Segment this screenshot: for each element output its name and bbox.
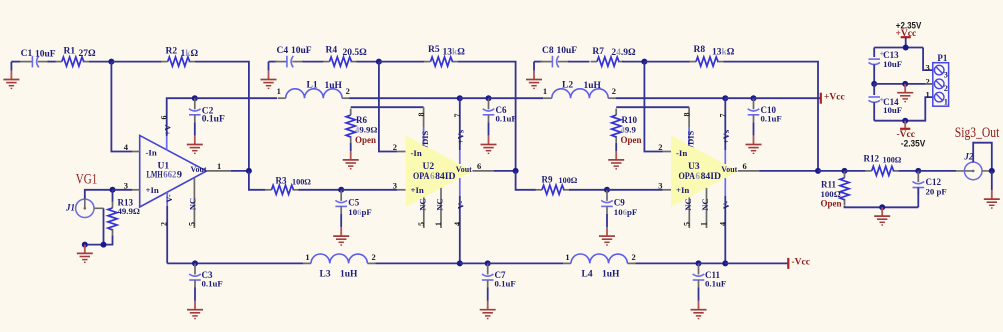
L2 pin 2 number bbox=[612, 86, 616, 96]
wire U2 out down to R9 bbox=[516, 171, 536, 190]
svg-text:NC: NC bbox=[417, 198, 427, 210]
svg-text:2: 2 bbox=[160, 222, 169, 226]
wire C14 top bbox=[873, 84, 875, 95]
C6 junction bbox=[486, 95, 492, 101]
svg-text:R3: R3 bbox=[276, 175, 287, 185]
capacitor C13 plus mark bbox=[880, 49, 885, 58]
U2 pin 4 junction bbox=[457, 260, 463, 266]
U2 pin 6 stub bbox=[472, 170, 494, 172]
svg-text:100Ω: 100Ω bbox=[559, 176, 578, 185]
wire R11 bottom rail bbox=[845, 206, 919, 208]
svg-text:NC: NC bbox=[187, 198, 197, 210]
C10 junction bbox=[751, 95, 757, 101]
P1 screw terminal 3 bbox=[934, 65, 948, 79]
U1 pin 5 number (rotated) bbox=[187, 222, 196, 226]
U1 pin 4 stub bbox=[132, 151, 140, 153]
svg-text:R6: R6 bbox=[356, 115, 367, 125]
U3 pin 6 stub bbox=[738, 170, 760, 172]
svg-text:1uH: 1uH bbox=[340, 270, 358, 280]
wire J1 plus terminal to node bbox=[85, 190, 113, 199]
svg-text:8: 8 bbox=[683, 113, 692, 117]
svg-text:49.9: 49.9 bbox=[621, 125, 637, 135]
svg-text:Open: Open bbox=[355, 135, 376, 145]
VG1 net label bbox=[76, 171, 98, 187]
wire junction to U1 pin 3 bbox=[113, 189, 133, 191]
U3 pin 4 junction bbox=[722, 260, 728, 266]
wire U1 out down to R3 bbox=[249, 171, 265, 190]
resistor R4 bbox=[323, 46, 367, 67]
ground below VG1 bbox=[77, 245, 93, 263]
wire +V rail L1 to U2 pin7 bbox=[349, 97, 459, 99]
svg-text:662: 662 bbox=[163, 170, 177, 180]
wire R1 to node A bbox=[89, 61, 111, 63]
svg-text:C4: C4 bbox=[277, 46, 289, 56]
U1 pin 6 +V name (rotated) bbox=[163, 124, 173, 136]
output jumper J2 circle bbox=[964, 162, 982, 180]
+Vcc supply symbol bbox=[896, 29, 917, 39]
op-amp U1 LMH6629 triangle bbox=[140, 135, 207, 207]
resistor R3 bbox=[265, 175, 311, 194]
svg-text:/DIS: /DIS bbox=[420, 130, 430, 148]
U3 pin 4 V- name (rotated) bbox=[721, 201, 731, 210]
svg-text:24.9Ω: 24.9Ω bbox=[611, 48, 636, 58]
wire U2 pin 4 (V-) to bottom rail bbox=[459, 196, 461, 263]
wire R8 to U3 output (feedback) bbox=[724, 62, 819, 171]
wire +V rail to C10 bbox=[725, 97, 753, 99]
C11 junction bbox=[696, 260, 702, 266]
U3 part number text bbox=[679, 171, 722, 181]
svg-text:1: 1 bbox=[217, 161, 221, 171]
U1 pin 1 stub bbox=[207, 170, 231, 172]
wire J1 minus terminal down bbox=[103, 208, 105, 244]
svg-text:2: 2 bbox=[658, 142, 662, 152]
U2 -In pin name bbox=[411, 148, 422, 158]
U3 pin 8 lead bbox=[688, 107, 690, 145]
wire U3 output bbox=[760, 170, 819, 172]
svg-text:C9: C9 bbox=[614, 197, 625, 207]
svg-text:10uF: 10uF bbox=[883, 59, 902, 69]
svg-text:13kΩ: 13kΩ bbox=[443, 48, 466, 58]
wire R4 to node B bbox=[357, 61, 379, 63]
svg-text:6: 6 bbox=[160, 116, 169, 120]
wire U3 out to R11 node bbox=[818, 170, 845, 172]
svg-text:C12: C12 bbox=[926, 177, 942, 187]
supply mid junction ground bbox=[902, 81, 908, 87]
svg-text:6: 6 bbox=[477, 161, 481, 171]
ground below C7 bbox=[480, 288, 496, 319]
L1 pin 2 number bbox=[346, 86, 350, 96]
svg-text:2: 2 bbox=[944, 84, 948, 93]
L2 pin 1 number bbox=[543, 86, 547, 96]
wire +Vcc symbol down bbox=[905, 37, 907, 47]
U3 pin 5 NC name (rotated) bbox=[683, 198, 693, 210]
svg-text:R11: R11 bbox=[821, 179, 837, 189]
svg-text:VG1: VG1 bbox=[76, 171, 98, 187]
C2 junction on +V rail bbox=[192, 95, 198, 101]
U2 output junction bbox=[513, 168, 519, 174]
svg-text:3: 3 bbox=[658, 180, 662, 190]
svg-text:10uF: 10uF bbox=[35, 49, 56, 59]
U2 pin 1 NC name (rotated) bbox=[435, 198, 445, 210]
U2 pin 5 number (rotated) bbox=[417, 222, 426, 226]
wire C13 top bbox=[873, 48, 875, 58]
P1 pin 3 number bbox=[926, 63, 930, 73]
U2 pin 1 NC stub bbox=[440, 188, 442, 228]
capacitor C5 bbox=[335, 190, 371, 217]
svg-text:Vout: Vout bbox=[191, 164, 207, 174]
svg-text:+Vs: +Vs bbox=[721, 129, 731, 144]
svg-text:20 pF: 20 pF bbox=[926, 187, 947, 197]
inductor L4 bbox=[563, 254, 635, 280]
resistor R13 bbox=[108, 197, 140, 235]
capacitor C9 bbox=[601, 190, 637, 217]
wire -V rail to -Vcc tick bbox=[725, 262, 787, 264]
svg-text:7: 7 bbox=[718, 114, 727, 118]
svg-text:-Vcc: -Vcc bbox=[792, 258, 810, 268]
svg-text:+In: +In bbox=[676, 185, 689, 195]
U3 +In pin name bbox=[676, 185, 689, 195]
wire C4 to R4 bbox=[303, 61, 325, 63]
C9 junction bbox=[604, 187, 610, 193]
-Vcc supply symbol bbox=[897, 121, 915, 141]
U2 Vout pin name bbox=[456, 164, 472, 174]
svg-text:C1: C1 bbox=[21, 49, 33, 59]
wire U3 pin 7 from rail bbox=[724, 98, 726, 150]
svg-text:5: 5 bbox=[417, 222, 426, 226]
junction R13 top / +In bbox=[110, 187, 116, 193]
svg-text:1: 1 bbox=[543, 86, 547, 96]
wire +V rail C6 to L2 bbox=[489, 97, 544, 99]
U2 pin 7 junction bbox=[457, 95, 463, 101]
svg-text:8: 8 bbox=[417, 113, 426, 117]
wire R9 to C9 node bbox=[569, 189, 607, 191]
U3 pin 2 stub bbox=[663, 151, 672, 153]
svg-text:R4: R4 bbox=[326, 46, 338, 56]
U2 designator text bbox=[423, 162, 435, 172]
svg-text:0.1uF: 0.1uF bbox=[705, 278, 726, 288]
svg-text:1: 1 bbox=[700, 222, 709, 226]
U1 pin 5 NC stub bbox=[193, 178, 195, 228]
U2 pin 4 V- name (rotated) bbox=[455, 201, 465, 210]
+Vcc supply tick bbox=[820, 93, 822, 104]
ground below J2 bbox=[984, 171, 1000, 208]
pin 6 label U2 bbox=[477, 161, 481, 171]
svg-text:0.1uF: 0.1uF bbox=[761, 114, 782, 124]
U2 pin 1 number (rotated) bbox=[434, 222, 443, 226]
ground below R10 bbox=[608, 143, 624, 169]
U3 pin 8 number (rotated) bbox=[683, 113, 692, 117]
U2 pin 8 lead bbox=[423, 107, 425, 145]
Sig3_Out net label bbox=[955, 125, 1000, 141]
-2.35V label bbox=[901, 139, 926, 150]
L3 pin 2 number bbox=[371, 252, 375, 262]
U3 Vout pin name bbox=[721, 164, 737, 174]
wire U2 output bbox=[494, 170, 516, 172]
ground below output filter bbox=[874, 207, 890, 225]
svg-text:R7: R7 bbox=[592, 47, 604, 57]
svg-text:+In: +In bbox=[146, 185, 159, 195]
ground below C11 bbox=[691, 288, 707, 319]
P1 screw terminal 2 bbox=[934, 79, 948, 93]
svg-text:106pF: 106pF bbox=[348, 207, 371, 217]
junction VG1 bottom left bbox=[82, 242, 88, 248]
svg-text:Vout: Vout bbox=[721, 164, 737, 174]
U3 pin 1 number (rotated) bbox=[700, 222, 709, 226]
L4 pin 1 number bbox=[565, 252, 569, 262]
svg-text:R8: R8 bbox=[694, 45, 706, 55]
wire U1 output bbox=[231, 170, 249, 172]
U2 pin 7 number (rotated) bbox=[453, 114, 462, 118]
svg-text:0.1uF: 0.1uF bbox=[496, 114, 517, 124]
wire -V rail C11 to U3 pin4 bbox=[699, 262, 726, 264]
U1 part number text bbox=[147, 170, 183, 180]
capacitor C6 bbox=[483, 98, 517, 123]
U1 pin 6 number (rotated) bbox=[160, 116, 169, 120]
pin 6 label U3 bbox=[743, 161, 747, 171]
wire C9 node to U3 pin 3 bbox=[607, 189, 663, 191]
capacitor C13 bbox=[869, 50, 903, 69]
svg-text:0.1uF: 0.1uF bbox=[202, 115, 225, 125]
svg-text:20.5Ω: 20.5Ω bbox=[343, 48, 368, 58]
U2 pin 5 NC stub bbox=[423, 197, 425, 228]
wire node C to U3 -In bbox=[644, 62, 662, 152]
C12 junction bbox=[915, 168, 921, 174]
svg-text:C5: C5 bbox=[348, 197, 359, 207]
svg-text:49.9Ω: 49.9Ω bbox=[355, 125, 377, 135]
svg-text:100Ω: 100Ω bbox=[292, 177, 311, 186]
wire supply to P1 pin 3 bbox=[923, 48, 933, 71]
C5 junction bbox=[338, 187, 344, 193]
svg-text:10uF: 10uF bbox=[883, 105, 902, 115]
svg-text:2: 2 bbox=[371, 252, 375, 262]
L3 pin 1 number bbox=[305, 252, 309, 262]
J2 designator bbox=[963, 151, 974, 161]
wire DIS net stage2 bbox=[351, 106, 424, 108]
svg-text:R10: R10 bbox=[622, 115, 638, 125]
ground below C6 bbox=[481, 122, 497, 153]
svg-text:1: 1 bbox=[434, 222, 443, 226]
L1 pin 1 number bbox=[277, 86, 281, 96]
ground supply mid bbox=[897, 84, 913, 102]
svg-text:Open: Open bbox=[821, 198, 842, 208]
wire node B to U2 -In bbox=[379, 62, 397, 152]
svg-text:2: 2 bbox=[393, 142, 397, 152]
svg-text:0.1uF: 0.1uF bbox=[202, 278, 223, 288]
P1 pin 2 stub bbox=[925, 83, 933, 85]
resistor R6 (Open) bbox=[346, 109, 377, 145]
wire DIS net stage3 bbox=[616, 106, 689, 108]
svg-text:/DIS: /DIS bbox=[686, 130, 696, 148]
svg-text:13kΩ: 13kΩ bbox=[712, 48, 735, 58]
op-amp U3 OPA684ID triangle (yellow) bbox=[671, 135, 738, 207]
resistor R5 (feedback) bbox=[424, 45, 465, 66]
R11 junction bbox=[842, 168, 848, 174]
U2 pin 4 number (rotated) bbox=[453, 222, 462, 226]
svg-text:3: 3 bbox=[944, 70, 948, 79]
svg-text:84ID: 84ID bbox=[435, 171, 456, 181]
svg-text:L2: L2 bbox=[562, 81, 573, 91]
L4 pin 2 number bbox=[631, 252, 635, 262]
U1 pin 2 lead (upper) bbox=[166, 192, 168, 206]
svg-text:2: 2 bbox=[926, 76, 930, 86]
resistor R2 (feedback) bbox=[161, 46, 198, 66]
wire R5 to U2 output (feedback) bbox=[458, 62, 516, 171]
U3 pin 3 stub bbox=[663, 189, 672, 191]
capacitor C7 bbox=[482, 263, 516, 288]
wire node C to R8 bbox=[644, 61, 690, 63]
P1 screw terminal 1 bbox=[934, 92, 948, 106]
op-amp U2 OPA684ID triangle (yellow) bbox=[406, 135, 473, 207]
U3 pin 1 NC stub bbox=[706, 188, 708, 228]
J1 designator bbox=[65, 203, 75, 213]
+2.35V label bbox=[896, 20, 922, 31]
P1 pin 2 number bbox=[926, 76, 930, 86]
U1 pin 5 NC name (rotated) bbox=[187, 198, 197, 210]
J1 top lead bbox=[84, 195, 86, 208]
svg-text:V-: V- bbox=[721, 201, 731, 210]
U3 output junction bbox=[815, 168, 821, 174]
capacitor C14 plus mark bbox=[880, 96, 885, 105]
junction ground output filter bbox=[879, 204, 885, 210]
pin 3 label U3 bbox=[658, 180, 662, 190]
svg-text:Sig3_Out: Sig3_Out bbox=[955, 125, 1000, 141]
svg-text:+Vcc: +Vcc bbox=[824, 93, 845, 103]
capacitor C11 bbox=[693, 263, 727, 288]
svg-text:C8: C8 bbox=[542, 46, 554, 56]
wire C8 to R7 bbox=[568, 61, 590, 63]
capacitor C12 bbox=[913, 171, 947, 197]
node C junction bbox=[641, 59, 647, 65]
wire C12 bottom corner bbox=[917, 188, 919, 208]
U1 pin 6 lead (lower) bbox=[166, 136, 168, 150]
svg-text:1: 1 bbox=[565, 252, 569, 262]
svg-text:+In: +In bbox=[411, 185, 424, 195]
svg-text:2: 2 bbox=[346, 86, 350, 96]
U3 pin 7 lead (lower) bbox=[724, 150, 726, 164]
U3 -In pin name bbox=[676, 148, 687, 158]
U1 -In pin name bbox=[146, 147, 157, 157]
svg-text:-In: -In bbox=[676, 148, 687, 158]
C3 junction bbox=[192, 260, 198, 266]
U1 +In pin name bbox=[146, 185, 159, 195]
wire U3 pin 4 (V-) to bottom rail bbox=[724, 196, 726, 263]
wire R7 to node C bbox=[622, 61, 644, 63]
wire node A to U1 -In bbox=[111, 62, 132, 152]
wire node A to R2 bbox=[111, 61, 161, 63]
svg-text:Vout: Vout bbox=[456, 164, 472, 174]
wire C1 input segment bbox=[11, 61, 20, 63]
U1 pin 3 stub bbox=[132, 189, 140, 191]
svg-text:1: 1 bbox=[277, 86, 281, 96]
svg-text:L3: L3 bbox=[320, 269, 331, 279]
svg-text:27Ω: 27Ω bbox=[79, 49, 97, 59]
svg-text:R9: R9 bbox=[542, 174, 553, 184]
J2 left lead bbox=[956, 170, 973, 172]
svg-text:10uF: 10uF bbox=[291, 46, 312, 56]
U3 pin 4 lead (upper) bbox=[724, 178, 726, 196]
U2 pin 7 +Vs name (rotated) bbox=[455, 129, 465, 144]
svg-text:1uH: 1uH bbox=[325, 81, 343, 91]
wire supply mid rail bbox=[874, 83, 933, 85]
U2 pin 7 lead (lower) bbox=[459, 150, 461, 164]
U2 pin 3 stub bbox=[397, 189, 406, 191]
U3 designator text bbox=[688, 162, 700, 172]
svg-text:L4: L4 bbox=[582, 269, 593, 279]
J1 right lead bbox=[94, 207, 104, 209]
svg-text:R1: R1 bbox=[64, 46, 76, 56]
U2 pin 5 NC name (rotated) bbox=[417, 198, 427, 210]
ground at C4 input bbox=[261, 62, 277, 89]
svg-text:OPA: OPA bbox=[679, 171, 696, 181]
svg-text:+Vs: +Vs bbox=[455, 129, 465, 144]
wire C14 bottom bbox=[873, 102, 875, 120]
svg-text:J1: J1 bbox=[65, 203, 75, 213]
U2 +In pin name bbox=[411, 185, 424, 195]
wire -V rail C7 to L4 bbox=[488, 262, 563, 264]
svg-text:R5: R5 bbox=[428, 45, 440, 55]
wire junction to R13 bbox=[112, 190, 114, 202]
U2 part number text bbox=[413, 171, 456, 181]
svg-text:-In: -In bbox=[146, 147, 157, 157]
svg-text:3: 3 bbox=[393, 180, 397, 190]
svg-text:0.1uF: 0.1uF bbox=[495, 278, 516, 288]
wire +V rail to +Vcc tick bbox=[754, 97, 821, 99]
wire R12 to C12 node bbox=[899, 170, 919, 172]
supply top junction bbox=[903, 45, 909, 51]
U3 pin 7 number (rotated) bbox=[718, 114, 727, 118]
svg-text:3: 3 bbox=[124, 180, 128, 190]
wire +V rail to C6 bbox=[460, 97, 489, 99]
ground below C3 bbox=[187, 288, 203, 319]
U1 output junction bbox=[246, 168, 252, 174]
node A junction bbox=[108, 59, 114, 65]
wire C8 input segment bbox=[534, 61, 543, 63]
resistor R1 bbox=[55, 46, 96, 66]
svg-text:1kΩ: 1kΩ bbox=[181, 49, 199, 59]
resistor R11 (Open) bbox=[821, 171, 850, 208]
supply mid junction left bbox=[871, 81, 877, 87]
svg-text:R2: R2 bbox=[166, 46, 178, 56]
wire +V rail L2 to U3 pin7 bbox=[616, 97, 725, 99]
pin 2 label U2 bbox=[393, 142, 397, 152]
pin 3 label U2 bbox=[393, 180, 397, 190]
svg-text:+V: +V bbox=[163, 124, 173, 136]
U1 pin 2 V- name (rotated) bbox=[164, 194, 174, 203]
svg-text:-2.35V: -2.35V bbox=[901, 139, 926, 150]
U3 pin 7 junction bbox=[722, 95, 728, 101]
capacitor C8 bbox=[540, 46, 577, 67]
wire supply bottom rail bbox=[874, 97, 933, 121]
svg-text:1uH: 1uH bbox=[584, 81, 602, 91]
wire U1 pin 6 (+V) to rail bbox=[167, 98, 195, 136]
svg-text:1: 1 bbox=[944, 97, 948, 106]
capacitor C14 bbox=[869, 97, 903, 115]
ground below C5 bbox=[333, 214, 349, 245]
capacitor C10 bbox=[748, 98, 782, 123]
inductor L3 bbox=[303, 254, 375, 280]
U1 pin 2 number (rotated) bbox=[160, 222, 169, 226]
resistor R10 (Open) bbox=[612, 109, 642, 145]
node B junction bbox=[376, 59, 382, 65]
U3 pin 8 /DIS name (rotated) bbox=[686, 130, 696, 148]
svg-text:100Ω: 100Ω bbox=[883, 155, 902, 164]
svg-text:P1: P1 bbox=[937, 53, 947, 63]
resistor R7 bbox=[591, 47, 637, 66]
U2 pin 8 /DIS name (rotated) bbox=[420, 130, 430, 148]
U3 pin 4 number (rotated) bbox=[718, 222, 727, 226]
wire C5 node to U2 pin 3 bbox=[341, 189, 397, 191]
svg-text:1: 1 bbox=[305, 252, 309, 262]
